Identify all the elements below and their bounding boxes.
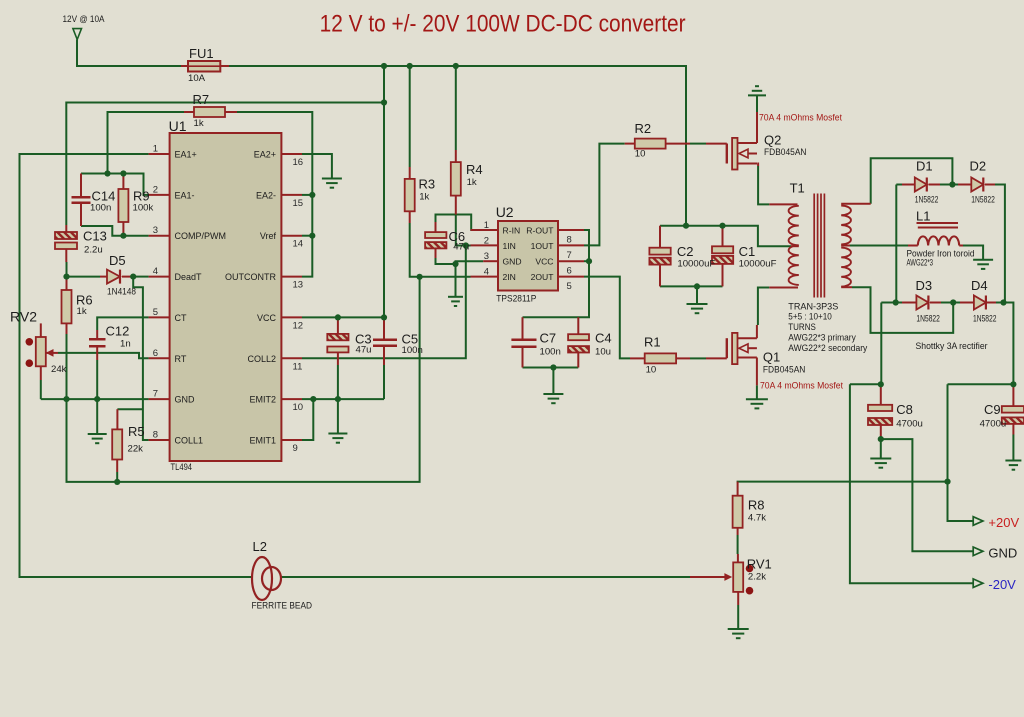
svg-text:100n: 100n xyxy=(90,203,111,214)
svg-text:GND: GND xyxy=(988,545,1017,560)
svg-text:VCC: VCC xyxy=(257,313,277,323)
svg-text:1k: 1k xyxy=(467,177,477,188)
svg-text:Shottky 3A rectifier: Shottky 3A rectifier xyxy=(916,341,988,352)
svg-text:GND: GND xyxy=(503,257,522,267)
svg-text:1k: 1k xyxy=(419,192,429,203)
svg-text:AWG22*3 primary: AWG22*3 primary xyxy=(788,332,856,343)
svg-text:C12: C12 xyxy=(106,324,130,339)
svg-text:4700u: 4700u xyxy=(896,419,923,430)
svg-text:1IN: 1IN xyxy=(503,241,516,251)
svg-text:6: 6 xyxy=(567,266,572,277)
svg-text:22k: 22k xyxy=(128,444,144,455)
svg-text:R2: R2 xyxy=(635,121,652,136)
svg-text:1n: 1n xyxy=(120,339,131,350)
svg-text:COLL1: COLL1 xyxy=(175,436,204,446)
svg-text:R8: R8 xyxy=(748,498,765,513)
svg-text:FDB045AN: FDB045AN xyxy=(763,365,806,376)
svg-text:14: 14 xyxy=(293,239,304,250)
svg-text:R1: R1 xyxy=(644,335,661,350)
svg-text:24k: 24k xyxy=(51,364,67,375)
svg-text:1N5822: 1N5822 xyxy=(971,195,995,206)
svg-text:GND: GND xyxy=(175,395,196,405)
svg-text:2: 2 xyxy=(153,184,158,195)
svg-text:L1: L1 xyxy=(916,209,930,224)
svg-text:EA1-: EA1- xyxy=(175,190,195,200)
svg-text:R4: R4 xyxy=(466,162,483,177)
svg-text:5: 5 xyxy=(153,307,158,318)
svg-text:VCC: VCC xyxy=(535,257,553,267)
svg-text:D5: D5 xyxy=(109,253,126,268)
svg-text:1N4148: 1N4148 xyxy=(107,287,136,298)
svg-text:16: 16 xyxy=(293,157,304,168)
svg-text:EA2-: EA2- xyxy=(256,190,276,200)
svg-text:RT: RT xyxy=(175,354,187,364)
svg-text:U2: U2 xyxy=(496,204,514,220)
svg-text:EA1+: EA1+ xyxy=(175,150,197,160)
svg-text:1OUT: 1OUT xyxy=(531,241,555,251)
svg-text:R-OUT: R-OUT xyxy=(526,226,554,236)
svg-text:1: 1 xyxy=(484,220,489,231)
svg-text:4.7k: 4.7k xyxy=(748,513,766,524)
svg-text:12: 12 xyxy=(293,320,304,331)
svg-text:10: 10 xyxy=(646,365,657,376)
svg-text:2.2u: 2.2u xyxy=(84,245,103,256)
svg-text:2OUT: 2OUT xyxy=(531,272,555,282)
svg-text:COLL2: COLL2 xyxy=(247,354,276,364)
svg-text:Q2: Q2 xyxy=(764,133,781,148)
svg-text:-20V: -20V xyxy=(988,577,1016,592)
svg-text:R9: R9 xyxy=(133,189,150,204)
svg-text:C2: C2 xyxy=(677,244,694,259)
svg-text:AWG22*2 secondary: AWG22*2 secondary xyxy=(788,343,867,354)
svg-text:D3: D3 xyxy=(916,278,933,293)
svg-text:RV1: RV1 xyxy=(747,557,772,572)
svg-text:D1: D1 xyxy=(916,159,933,174)
svg-text:12V @ 10A: 12V @ 10A xyxy=(63,14,106,25)
svg-text:C7: C7 xyxy=(540,331,557,346)
svg-text:R7: R7 xyxy=(193,92,210,107)
svg-text:11: 11 xyxy=(293,361,303,372)
svg-text:1N5822: 1N5822 xyxy=(916,314,940,325)
svg-text:R5: R5 xyxy=(128,424,145,439)
svg-text:3: 3 xyxy=(153,225,158,236)
svg-text:10: 10 xyxy=(293,402,304,413)
svg-text:TL494: TL494 xyxy=(171,462,193,473)
svg-text:4700u: 4700u xyxy=(980,419,1007,430)
svg-text:13: 13 xyxy=(293,280,304,291)
svg-text:D2: D2 xyxy=(970,159,987,174)
svg-text:100n: 100n xyxy=(402,345,423,356)
svg-text:FERRITE BEAD: FERRITE BEAD xyxy=(252,601,313,612)
svg-text:R3: R3 xyxy=(419,177,436,192)
svg-text:6: 6 xyxy=(153,348,158,359)
svg-text:70A 4 mOhms Mosfet: 70A 4 mOhms Mosfet xyxy=(759,113,842,124)
svg-text:1k: 1k xyxy=(77,306,87,317)
svg-text:10A: 10A xyxy=(188,73,206,84)
svg-text:4: 4 xyxy=(484,267,489,278)
svg-text:4: 4 xyxy=(153,266,158,277)
svg-text:Q1: Q1 xyxy=(763,350,780,365)
svg-text:FDB045AN: FDB045AN xyxy=(764,147,807,158)
svg-text:EMIT1: EMIT1 xyxy=(249,436,276,446)
svg-text:12 V to +/- 20V 100W DC-DC con: 12 V to +/- 20V 100W DC-DC converter xyxy=(320,11,686,38)
svg-text:7: 7 xyxy=(567,250,572,261)
svg-text:EMIT2: EMIT2 xyxy=(249,395,276,405)
svg-text:47u: 47u xyxy=(356,345,372,356)
svg-text:C1: C1 xyxy=(739,244,756,259)
svg-text:2IN: 2IN xyxy=(503,272,516,282)
svg-text:5: 5 xyxy=(567,281,572,292)
svg-text:2: 2 xyxy=(484,235,489,246)
svg-text:9: 9 xyxy=(293,443,298,454)
svg-text:70A 4 mOhms Mosfet: 70A 4 mOhms Mosfet xyxy=(760,381,843,392)
svg-text:C9: C9 xyxy=(984,402,1001,417)
svg-text:U1: U1 xyxy=(169,118,187,134)
svg-text:AWG22*3: AWG22*3 xyxy=(907,257,934,268)
svg-text:RV2: RV2 xyxy=(10,309,37,325)
svg-text:COMP/PWM: COMP/PWM xyxy=(175,231,227,241)
svg-text:100k: 100k xyxy=(133,203,154,214)
svg-text:OUTCONTR: OUTCONTR xyxy=(225,272,276,282)
svg-text:100n: 100n xyxy=(540,347,561,358)
svg-text:Vref: Vref xyxy=(260,231,277,241)
svg-text:L2: L2 xyxy=(253,539,267,554)
svg-text:T1: T1 xyxy=(790,181,805,196)
svg-text:R-IN: R-IN xyxy=(503,226,521,236)
svg-text:DeadT: DeadT xyxy=(175,272,203,282)
svg-text:8: 8 xyxy=(567,235,572,246)
svg-text:2.2k: 2.2k xyxy=(748,572,766,583)
svg-text:C4: C4 xyxy=(595,331,612,346)
svg-text:1N5822: 1N5822 xyxy=(973,314,997,325)
svg-text:TURNS: TURNS xyxy=(788,322,816,333)
svg-text:1N5822: 1N5822 xyxy=(915,195,939,206)
svg-text:8: 8 xyxy=(153,430,158,441)
svg-text:10: 10 xyxy=(635,149,646,160)
svg-text:7: 7 xyxy=(153,389,158,400)
svg-text:TPS2811P: TPS2811P xyxy=(496,294,536,305)
svg-text:EA2+: EA2+ xyxy=(254,150,276,160)
svg-text:D4: D4 xyxy=(971,278,988,293)
svg-text:1: 1 xyxy=(153,144,158,155)
svg-text:FU1: FU1 xyxy=(189,46,214,61)
svg-text:CT: CT xyxy=(175,313,187,323)
svg-text:15: 15 xyxy=(293,198,304,209)
svg-text:10000uF: 10000uF xyxy=(739,259,777,270)
svg-text:C14: C14 xyxy=(92,189,116,204)
svg-text:C8: C8 xyxy=(896,402,913,417)
svg-text:47u: 47u xyxy=(453,242,469,253)
svg-text:+20V: +20V xyxy=(988,515,1019,530)
svg-text:3: 3 xyxy=(484,251,489,262)
svg-text:10u: 10u xyxy=(595,347,611,358)
svg-text:C13: C13 xyxy=(83,229,107,244)
svg-text:10000uF: 10000uF xyxy=(677,259,715,270)
svg-text:1k: 1k xyxy=(194,118,204,129)
